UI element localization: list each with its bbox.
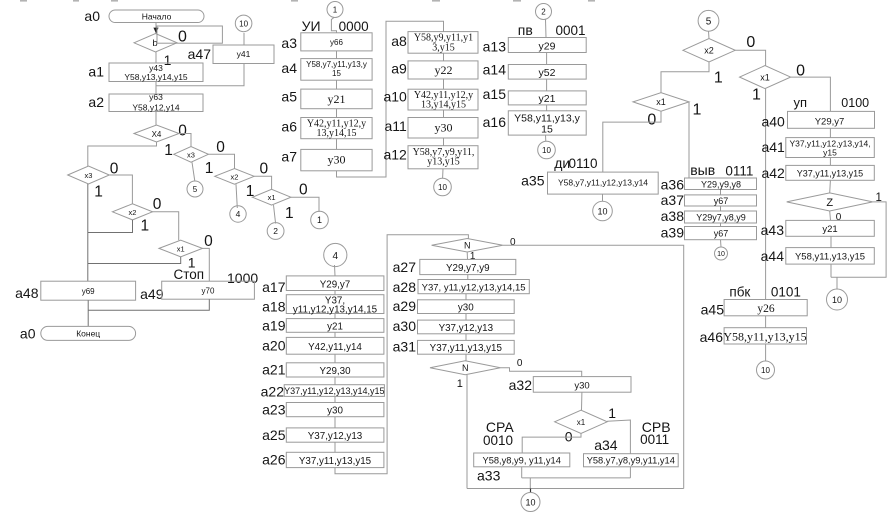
svg-text:0010: 0010	[483, 433, 513, 448]
wire a47 to a2 merge	[156, 64, 244, 86]
svg-text:Y37,y11,y13,y15: Y37,y11,y13,y15	[430, 343, 503, 354]
terminator Начало	[109, 10, 204, 23]
wire a4-a5	[336, 80, 338, 89]
svg-text:Стоп: Стоп	[174, 267, 205, 282]
connector 2 (пв entry)	[536, 4, 552, 20]
wire x2a=1 merge left	[88, 220, 133, 233]
svg-text:a29: a29	[393, 298, 417, 314]
wire a21-a22	[334, 377, 336, 385]
svg-text:10: 10	[761, 366, 770, 375]
svg-text:a1: a1	[88, 64, 104, 80]
svg-text:Y37, y11,y12,y13,y14,15: Y37, y11,y12,y13,y14,15	[422, 283, 526, 294]
svg-text:a41: a41	[761, 139, 785, 155]
wire merge to connector 10	[836, 277, 838, 289]
decision x3a	[68, 166, 110, 184]
wire x3b=1 to connector 5	[192, 162, 195, 181]
svg-text:a4: a4	[281, 60, 297, 76]
svg-text:x2: x2	[231, 172, 239, 181]
svg-text:0: 0	[299, 181, 308, 198]
box a13	[508, 38, 586, 53]
wire x3a=0 to x2a	[109, 175, 132, 204]
wire x2=0 to x1 right	[735, 50, 765, 65]
svg-text:y67: y67	[714, 229, 729, 239]
box a45	[724, 300, 807, 316]
svg-text:x2: x2	[129, 208, 137, 217]
decision x1a	[159, 240, 203, 257]
svg-text:a10: a10	[383, 89, 407, 105]
box a41	[786, 138, 875, 158]
svg-text:a17: a17	[262, 279, 286, 295]
svg-text:a39: a39	[661, 225, 685, 241]
wire x1b=0 to connector 1	[291, 197, 319, 212]
svg-text:4: 4	[236, 209, 241, 219]
svg-text:0: 0	[178, 123, 187, 140]
svg-text:a45: a45	[701, 302, 725, 318]
svg-text:13,y14,15: 13,y14,15	[317, 128, 357, 139]
wire a20-a21	[334, 354, 336, 363]
svg-text:a7: a7	[281, 149, 297, 165]
box a22	[284, 385, 384, 397]
svg-text:X4: X4	[152, 130, 162, 139]
wire a31 to N2	[465, 354, 467, 361]
svg-text:0: 0	[517, 358, 523, 369]
connector 1 (УИ entry)	[327, 2, 343, 18]
box a25	[286, 428, 384, 442]
svg-text:0110: 0110	[569, 156, 598, 171]
svg-text:0: 0	[216, 139, 225, 156]
svg-text:Y58.y7,y8,y9,y11,y14: Y58.y7,y8,y9,y11,y14	[587, 456, 675, 466]
box a40	[788, 111, 875, 128]
wire x3b=0 to x2b	[208, 154, 234, 168]
svg-text:y21: y21	[327, 322, 343, 333]
wire a13-a14	[546, 53, 548, 65]
decision x1 right	[740, 66, 791, 89]
wire N1=0 feedback right and down	[503, 245, 684, 488]
svg-text:y69: y69	[82, 287, 95, 296]
svg-text:x1: x1	[577, 418, 586, 427]
wire X4=1 to x3a	[88, 142, 157, 166]
decision x2 right	[683, 39, 735, 62]
box a26	[286, 452, 384, 467]
wire Z=0 to a43	[829, 211, 832, 220]
svg-text:a38: a38	[661, 208, 685, 224]
wire a46 to connector 10	[765, 344, 767, 361]
svg-text:выв: выв	[690, 162, 715, 178]
svg-text:N: N	[464, 241, 471, 251]
svg-text:x1: x1	[268, 193, 276, 202]
decision x2b	[215, 169, 255, 185]
svg-text:a3: a3	[281, 35, 297, 51]
svg-text:1: 1	[693, 102, 702, 119]
box a17	[286, 276, 384, 291]
svg-text:y30: y30	[435, 121, 453, 135]
svg-text:x1: x1	[656, 97, 666, 107]
connector 5 top right	[698, 10, 719, 31]
decision x1b	[252, 189, 291, 205]
svg-text:y30: y30	[458, 303, 474, 314]
wire a5-a6	[336, 109, 338, 118]
svg-text:10: 10	[597, 206, 607, 216]
wire a26 loop up to N1	[335, 235, 468, 474]
svg-text:0: 0	[259, 160, 268, 177]
svg-text:15: 15	[332, 69, 341, 78]
wire x3a=1 long down to a48	[87, 184, 89, 281]
svg-text:y22: y22	[435, 63, 453, 77]
box a44	[786, 248, 875, 265]
svg-text:a8: a8	[391, 33, 407, 49]
svg-text:a23: a23	[262, 402, 286, 418]
terminator Конец	[41, 326, 136, 340]
svg-text:пв: пв	[518, 22, 533, 38]
wire a18-a19	[334, 314, 336, 319]
svg-text:x2: x2	[704, 45, 714, 55]
empty box on b=0 branch	[157, 26, 222, 43]
svg-text:a20: a20	[262, 338, 286, 354]
svg-text:y66: y66	[330, 38, 343, 47]
wire a10-a11	[443, 110, 445, 118]
box a35	[548, 172, 659, 194]
wire a14-a15	[546, 79, 548, 91]
svg-text:y67: y67	[714, 196, 729, 206]
svg-text:a6: a6	[281, 119, 297, 135]
connector 2	[267, 223, 284, 240]
connector 10 below a12	[434, 178, 452, 196]
svg-text:Y37,y11,y12,y13,y14,y15: Y37,y11,y12,y13,y14,y15	[284, 386, 384, 396]
wire a27-a28	[467, 275, 469, 280]
decision N2	[430, 361, 500, 375]
svg-text:a44: a44	[761, 248, 785, 264]
svg-text:a48: a48	[15, 285, 39, 301]
svg-text:a32: a32	[509, 377, 533, 393]
wire N2=0 to a32	[500, 368, 581, 377]
wire a30-a31	[465, 334, 467, 341]
box a47 y41	[213, 45, 274, 64]
box a29	[418, 300, 515, 314]
wire a2 to X4	[155, 112, 157, 126]
svg-text:Y58,y13,y14,y15: Y58,y13,y14,y15	[124, 72, 188, 82]
svg-text:a40: a40	[761, 114, 785, 130]
wire x2b=0 to x1b	[254, 176, 271, 189]
wire a34 down	[629, 467, 631, 478]
svg-text:Y58,y7,y11,y12,y13,y14: Y58,y7,y11,y12,y13,y14	[558, 178, 648, 188]
box a4	[301, 59, 372, 81]
svg-text:a27: a27	[393, 259, 417, 275]
svg-text:y41: y41	[237, 49, 251, 59]
box a11	[408, 118, 478, 139]
wire a16 to connector 10	[545, 135, 547, 141]
wire a36-a37	[720, 190, 722, 195]
wire a37-a38	[720, 206, 722, 211]
wire a19-a20	[334, 332, 336, 337]
wire x2=1 to x1 left	[661, 62, 709, 93]
wire bottom merge bar	[467, 488, 684, 490]
box a39	[685, 227, 757, 240]
svg-text:13,y14,y15: 13,y14,y15	[421, 100, 466, 111]
box a27	[420, 259, 516, 274]
svg-text:a0: a0	[84, 8, 100, 24]
svg-text:10: 10	[832, 295, 842, 305]
svg-text:Конец: Конец	[76, 329, 100, 339]
svg-text:N: N	[462, 363, 469, 373]
svg-text:1: 1	[457, 378, 463, 390]
wire a8-a9	[443, 53, 445, 61]
svg-text:1: 1	[333, 6, 338, 15]
wire x1a=1 merge left	[88, 257, 181, 264]
box a33	[474, 453, 570, 467]
svg-text:a5: a5	[281, 89, 297, 105]
box a1	[109, 63, 203, 82]
wire a7 to a8	[337, 21, 444, 177]
wire a9-a10	[443, 79, 445, 89]
connector 10 below a39	[715, 247, 728, 260]
box a5	[301, 89, 372, 109]
svg-text:Y29,30: Y29,30	[319, 366, 351, 377]
wire a43-a44	[830, 236, 832, 247]
wire a40-a41	[829, 128, 831, 137]
connector 4 above a17	[324, 243, 347, 266]
connector 10 top	[235, 15, 252, 32]
box a49	[162, 281, 255, 299]
svg-text:15: 15	[541, 123, 553, 135]
svg-text:0100: 0100	[841, 96, 869, 110]
svg-text:a21: a21	[262, 362, 286, 378]
svg-text:a31: a31	[393, 339, 417, 355]
box a37	[685, 195, 757, 206]
wire a3-a4	[336, 51, 338, 59]
svg-text:1: 1	[164, 52, 172, 68]
wire a38-a39	[720, 223, 722, 227]
svg-text:Y29,y7: Y29,y7	[320, 279, 351, 290]
connector 10 below a46	[757, 361, 775, 379]
svg-text:a49: a49	[140, 286, 164, 302]
svg-text:0: 0	[565, 429, 573, 445]
svg-text:1: 1	[205, 160, 214, 177]
svg-text:10: 10	[438, 183, 447, 192]
wire a29-a30	[465, 314, 467, 321]
decision Z	[787, 193, 873, 211]
svg-text:Y37,y12,y13: Y37,y12,y13	[439, 323, 494, 334]
svg-text:a43: a43	[761, 222, 785, 238]
svg-text:a30: a30	[393, 318, 417, 334]
svg-text:y15: y15	[823, 148, 837, 158]
svg-text:0: 0	[836, 212, 842, 223]
wire a39 to connector 10	[720, 240, 723, 247]
box a2	[109, 92, 203, 113]
svg-text:1: 1	[317, 215, 322, 225]
wire a42 to Z	[829, 180, 832, 193]
svg-text:УИ: УИ	[302, 18, 321, 34]
box a9	[408, 61, 478, 79]
box a7	[301, 149, 372, 170]
wire a23-a25	[334, 417, 336, 428]
wire 1 to a3	[331, 18, 336, 33]
svg-text:1: 1	[608, 405, 616, 421]
wire stub to connector 10	[530, 489, 532, 493]
box a38	[685, 211, 757, 223]
box a14	[508, 65, 586, 80]
svg-text:a36: a36	[661, 177, 685, 193]
wire 4 to a17	[334, 265, 337, 276]
svg-text:a47: a47	[188, 46, 212, 62]
box a42	[786, 165, 875, 180]
svg-text:0: 0	[647, 111, 656, 128]
decision N1	[432, 239, 503, 253]
wire x1=1 to a34	[607, 420, 630, 454]
wire a6-a7	[336, 139, 338, 150]
svg-text:0: 0	[510, 237, 516, 248]
svg-text:Y29,y9,y8: Y29,y9,y8	[701, 180, 741, 190]
svg-text:1: 1	[140, 218, 149, 235]
svg-text:1: 1	[94, 184, 103, 201]
connector 10 bottom	[521, 493, 540, 512]
svg-text:1: 1	[164, 142, 173, 159]
svg-text:пбк: пбк	[729, 285, 750, 300]
box a12	[408, 146, 478, 169]
wire x1b=1 to connector 2	[274, 205, 276, 223]
svg-text:y52: y52	[539, 67, 556, 79]
connector 4	[230, 206, 246, 222]
top edge artifacts	[20, 0, 595, 2]
svg-text:x1: x1	[177, 244, 185, 253]
svg-text:Z: Z	[826, 197, 833, 209]
box a32	[533, 377, 631, 393]
wire a35 to connector 10	[602, 194, 604, 201]
box a19	[286, 319, 384, 333]
wire x1right=1 long down to a45	[765, 89, 767, 300]
decision x2a	[112, 204, 152, 220]
svg-text:a11: a11	[384, 118, 407, 134]
box a43	[786, 220, 875, 236]
wire b to a1	[155, 52, 157, 63]
svg-text:Y29,y7: Y29,y7	[815, 116, 845, 127]
svg-text:0: 0	[204, 233, 213, 250]
box a6	[301, 118, 372, 140]
box a31	[418, 340, 515, 354]
svg-text:a16: a16	[483, 114, 507, 130]
wire a48 to Конец	[87, 300, 89, 326]
svg-text:1: 1	[752, 87, 761, 104]
wire x2a=0 to x1a	[153, 212, 179, 240]
box a46	[723, 328, 806, 344]
wire X4=0 to x3b	[179, 134, 191, 147]
box a28	[418, 280, 529, 294]
svg-text:10: 10	[239, 19, 248, 28]
wire a15-a16	[546, 105, 548, 111]
svg-text:5: 5	[706, 17, 712, 28]
svg-text:уп: уп	[794, 95, 808, 110]
svg-text:a2: a2	[88, 94, 104, 110]
connector 10 below a35	[593, 201, 613, 221]
svg-text:Y37,y11,y13,y15: Y37,y11,y13,y15	[299, 456, 372, 467]
box a3	[301, 33, 372, 51]
decision x1 left	[633, 93, 689, 112]
svg-text:0101: 0101	[771, 285, 801, 300]
svg-text:y30: y30	[327, 406, 343, 417]
svg-text:a12: a12	[383, 147, 407, 163]
wire a22-a23	[334, 396, 336, 402]
svg-text:Y29y7,y8,y9: Y29y7,y8,y9	[696, 212, 746, 222]
box a16	[508, 111, 586, 136]
wire merge drop	[529, 478, 531, 489]
wire x1a=0 to a49	[203, 248, 210, 281]
wire a49 to Конец merge	[88, 299, 209, 310]
box a34	[584, 454, 679, 467]
svg-text:0001: 0001	[556, 23, 586, 38]
box a21	[286, 363, 384, 377]
svg-text:0011: 0011	[640, 432, 669, 447]
svg-text:a35: a35	[521, 173, 545, 189]
wire x1left=0 to a35	[603, 111, 661, 172]
svg-text:y70: y70	[202, 287, 215, 296]
svg-text:a34: a34	[594, 437, 618, 453]
svg-text:2: 2	[541, 8, 546, 17]
wire a45-a46	[765, 316, 767, 328]
wire a28-a29	[465, 294, 467, 300]
wire x1left=1 to a36	[688, 102, 690, 178]
svg-text:Y29,y7,y9: Y29,y7,y9	[446, 263, 490, 274]
svg-text:a0: a0	[20, 326, 36, 342]
svg-text:10: 10	[525, 497, 535, 507]
wire x1right=0 to a40	[791, 77, 831, 111]
wire x2b=1 to connector 4	[236, 184, 237, 208]
svg-text:a9: a9	[391, 61, 407, 77]
svg-text:Y37,y11,y13,y15: Y37,y11,y13,y15	[797, 169, 863, 179]
svg-text:y30: y30	[328, 153, 346, 167]
svg-text:a28: a28	[393, 279, 417, 295]
box a15	[508, 91, 586, 105]
svg-text:x1: x1	[760, 73, 770, 83]
svg-text:y21: y21	[822, 224, 837, 235]
svg-text:y13,y15: y13,y15	[427, 157, 460, 168]
wire a11-a12	[443, 138, 445, 146]
wire Начало to b with arrowhead	[153, 23, 158, 34]
svg-text:y26: y26	[757, 303, 775, 315]
connector 1	[311, 211, 329, 229]
svg-text:Y58,y11,y13,y15: Y58,y11,y13,y15	[795, 252, 865, 263]
wire a25-a26	[334, 442, 336, 452]
svg-text:1: 1	[470, 251, 476, 262]
wire a41-a42	[829, 158, 831, 166]
svg-text:a26: a26	[262, 452, 286, 468]
svg-text:0: 0	[746, 34, 755, 51]
wire a33 down	[521, 467, 523, 478]
connector 5	[187, 181, 203, 197]
svg-text:a19: a19	[262, 318, 286, 334]
svg-text:x3: x3	[187, 150, 195, 159]
box a30	[418, 320, 515, 334]
svg-text:a37: a37	[661, 192, 685, 208]
decision X4	[134, 125, 179, 142]
svg-text:1: 1	[714, 69, 723, 86]
svg-text:5: 5	[193, 185, 198, 194]
svg-text:y63: y63	[149, 92, 163, 102]
wire 2 to a13	[545, 20, 548, 38]
decision x1 bottom	[555, 410, 608, 433]
svg-text:Y58,y12,y14: Y58,y12,y14	[132, 103, 180, 113]
svg-text:a46: a46	[700, 329, 724, 345]
box a20	[286, 337, 384, 354]
wire 10 to a47	[243, 33, 245, 45]
svg-text:Y58,y8,y9, y11,y14: Y58,y8,y9, y11,y14	[483, 455, 561, 465]
svg-text:3,y15: 3,y15	[432, 42, 455, 53]
svg-text:0: 0	[153, 196, 162, 213]
box a36	[685, 178, 757, 190]
wire a44 down to merge	[830, 264, 832, 277]
wire a1 to a2	[155, 82, 157, 95]
svg-text:0111: 0111	[725, 164, 753, 179]
wire N1=1 to a27	[466, 252, 468, 259]
box a48	[41, 281, 136, 300]
